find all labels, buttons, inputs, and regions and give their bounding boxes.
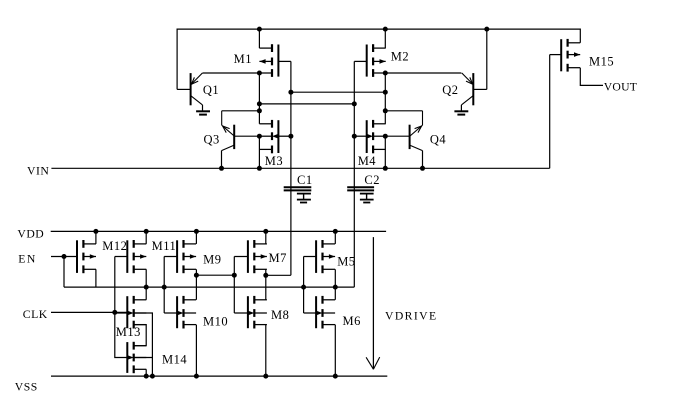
transistor M11 bbox=[115, 240, 147, 273]
junction M2 gate cross wire bbox=[352, 101, 357, 106]
arrow VDRIVE annotation bbox=[366, 237, 380, 369]
wire M5 drain to VDD bbox=[334, 231, 336, 244]
junction VSS / M8 source bbox=[263, 374, 268, 379]
svg-text:Q4: Q4 bbox=[430, 133, 447, 147]
wire EN vertical down to gate bus bbox=[63, 257, 65, 288]
svg-text:M11: M11 bbox=[152, 239, 177, 253]
wire M3 source to VIN rail bbox=[258, 136, 260, 168]
wire M6 source to VSS bbox=[334, 325, 336, 377]
ground below C2 bbox=[360, 194, 374, 203]
wire M2 drain to top rail bbox=[384, 29, 386, 48]
wire M1 drain to top rail bbox=[258, 29, 260, 48]
junction top rail / Q2 base bbox=[484, 27, 489, 32]
transistor M10 bbox=[164, 296, 196, 329]
junction CLK / M11 M13 M14 gates bbox=[112, 310, 117, 315]
wire M5 source down to gate bus bbox=[334, 269, 336, 287]
transistor M12 bbox=[77, 240, 96, 273]
wire cross-coupling M2 gate to M1 drain node bbox=[259, 103, 354, 105]
junction gate bus / M5 M6 gates bbox=[301, 285, 306, 290]
svg-text:M9: M9 bbox=[203, 252, 221, 266]
svg-text:M8: M8 bbox=[271, 308, 289, 322]
svg-text:M3: M3 bbox=[265, 154, 283, 168]
junction M1 source node bbox=[257, 71, 262, 76]
junction VIN / Q4 collector bbox=[420, 166, 425, 171]
junction Q4 base / M4 bulk node bbox=[383, 134, 388, 139]
svg-text:M14: M14 bbox=[162, 353, 187, 367]
capacitor C2 bbox=[347, 187, 374, 190]
junction VIN / M4 source bbox=[383, 166, 388, 171]
svg-text:M5: M5 bbox=[337, 254, 355, 268]
wire M15 source down to VOUT bbox=[580, 68, 603, 86]
wire M9 drain to VDD bbox=[195, 231, 197, 244]
junction VDD / M9 drain bbox=[194, 229, 199, 234]
wire VIN rail bbox=[51, 167, 549, 169]
svg-text:VDD: VDD bbox=[17, 228, 44, 241]
ground below C1 bbox=[297, 194, 311, 203]
transistor M3 bbox=[259, 120, 291, 153]
junction Q3 base / M3 bulk node bbox=[257, 134, 262, 139]
junction M2 drain chain / cross wire bbox=[383, 90, 388, 95]
wire M13 bulk to VSS vertical bbox=[134, 313, 153, 376]
wire M1 source chain down to Q3 emitter node and M3 drain bbox=[258, 73, 260, 124]
wire M11/M13 gate vertical to CLK bbox=[114, 257, 116, 313]
svg-text:M12: M12 bbox=[102, 239, 127, 253]
wire M9 source down to link node bbox=[195, 269, 197, 275]
arrow Q1 emitter (PNP, pointing toward bar) bbox=[191, 81, 198, 84]
junction M1 drain chain / cross wire bbox=[257, 101, 262, 106]
svg-text:VDRIVE: VDRIVE bbox=[385, 309, 438, 322]
transistor M1 bbox=[259, 44, 291, 77]
wire Q2 base vertical to top rail bbox=[486, 29, 488, 89]
wire M11 source down to gate bus bbox=[145, 269, 147, 287]
svg-text:M2: M2 bbox=[391, 50, 409, 64]
arrow Q3 emitter (NPN, pointing away from bar) bbox=[223, 126, 227, 133]
wire link M9 source to M7/M8 gate vertical bbox=[196, 274, 234, 276]
wire M7 drain to VDD bbox=[265, 231, 267, 244]
arrow Q4 emitter (NPN, pointing away from bar) bbox=[415, 126, 422, 129]
svg-text:VSS: VSS bbox=[15, 381, 38, 394]
wire M9 source chain down to M10 drain bbox=[195, 275, 197, 300]
transistor M5 bbox=[304, 240, 336, 273]
svg-text:M13: M13 bbox=[116, 325, 141, 339]
junction VSS / M10 source bbox=[194, 374, 199, 379]
wire cross-coupling M1 gate to M2 drain node bbox=[291, 91, 385, 93]
svg-text:C1: C1 bbox=[297, 173, 313, 187]
wire M5/M6 gate vertical through gate bus bbox=[303, 257, 305, 314]
wire M2 source node to Q2 emitter bbox=[385, 72, 461, 74]
transistor M4 bbox=[354, 120, 385, 153]
capacitor C1 bbox=[284, 187, 312, 190]
wire M3 drain stub corner bbox=[258, 123, 260, 125]
junction VSS / M14 source bbox=[144, 374, 149, 379]
wire M8 source to VSS bbox=[265, 325, 267, 377]
wire M7 source down to C1 link node bbox=[265, 269, 267, 275]
wire M12 drain to VDD bbox=[95, 231, 97, 244]
transistor M14 bbox=[127, 342, 146, 373]
wire CLK input bbox=[51, 311, 127, 313]
wire VDD rail bbox=[51, 230, 386, 232]
wire Q4 base to node bbox=[385, 135, 409, 137]
wire EN input bbox=[51, 256, 77, 258]
svg-text:Q3: Q3 bbox=[204, 133, 220, 147]
wire Q1 base lead bbox=[177, 88, 191, 90]
junction top rail / M1 drain bbox=[257, 27, 262, 32]
transistor M6 bbox=[304, 296, 336, 329]
junction M7 M8 gate vertical / link bbox=[232, 273, 237, 278]
wire Q4 collector to VIN rail bbox=[422, 151, 424, 169]
wire M4 source to VIN rail bbox=[384, 136, 386, 168]
wire M6 drain up to gate bus bbox=[334, 287, 336, 300]
svg-text:M4: M4 bbox=[358, 154, 377, 168]
transistor Q4 bbox=[410, 111, 423, 151]
junction gate bus / M9 M10 gates bbox=[162, 285, 167, 290]
transistor M15 bbox=[550, 39, 581, 72]
junction M9 source link left bbox=[194, 273, 199, 278]
junction M1 gate cross wire bbox=[288, 90, 293, 95]
svg-text:VIN: VIN bbox=[27, 165, 49, 178]
junction EN / M12 gate bbox=[62, 254, 67, 259]
wire CLK vertical down to M14 gate bbox=[115, 312, 128, 357]
transistor M13 bbox=[115, 296, 147, 329]
junction VDD / M12 drain bbox=[93, 229, 98, 234]
wire M13 source down to M14 drain bbox=[134, 325, 147, 346]
wire left vertical from top rail to Q1 base bbox=[176, 29, 178, 90]
junction Q4 emitter node bbox=[383, 108, 388, 113]
wire Q3 base to node bbox=[234, 135, 259, 137]
junction M2 source node bbox=[383, 71, 388, 76]
transistor Q2 bbox=[461, 73, 473, 105]
junction VSS / M6 source bbox=[333, 374, 338, 379]
wire M2/M4 gate vertical down through C2 to gate bus bbox=[353, 61, 355, 287]
junction top rail / M2 drain bbox=[383, 27, 388, 32]
arrow Q2 emitter (PNP, pointing toward bar) bbox=[470, 77, 473, 84]
svg-text:M10: M10 bbox=[203, 314, 228, 328]
junction gate bus / M5 source / M6 drain bbox=[333, 285, 338, 290]
transistor Q1 bbox=[191, 73, 203, 105]
wire M10 source to VSS bbox=[195, 325, 197, 377]
wire M2 source chain down to Q4 emitter node and M4 drain bbox=[384, 73, 386, 124]
junction M4 gate / C2 vertical bbox=[352, 134, 357, 139]
transistor M2 bbox=[354, 44, 385, 77]
svg-text:M6: M6 bbox=[343, 314, 361, 328]
junction VDD / M7 drain bbox=[263, 229, 268, 234]
svg-text:C2: C2 bbox=[364, 173, 380, 187]
wire VSS rail bbox=[51, 375, 387, 377]
wire Q1 collector drop to ground bbox=[202, 105, 204, 111]
wire Q4 emitter horizontal to M2 source chain bbox=[385, 110, 422, 112]
transistor M9 bbox=[164, 240, 196, 273]
junction Q3 emitter node bbox=[257, 108, 262, 113]
svg-text:EN: EN bbox=[18, 252, 37, 265]
wire Q2 collector drop to ground bbox=[460, 105, 462, 111]
junction VDD / M5 drain bbox=[333, 229, 338, 234]
svg-text:M15: M15 bbox=[589, 54, 614, 68]
transistor Q3 bbox=[222, 111, 235, 151]
transistor M8 bbox=[234, 296, 267, 329]
wire top supply rail bbox=[177, 28, 580, 30]
wire Q2 base lead bbox=[473, 88, 487, 90]
wire M12 source down to gate bus bbox=[95, 269, 97, 287]
junction M3 gate / C1 vertical bbox=[288, 134, 293, 139]
wire Q1 emitter to M1 source node bbox=[203, 72, 260, 74]
wire Q3 emitter horizontal to M1 source chain bbox=[222, 110, 260, 112]
junction gate bus / M11 source / M13 drain bbox=[144, 285, 149, 290]
junction VSS / M13 M14 bulk bbox=[150, 374, 155, 379]
wire link C1 vertical to M7 drain node bbox=[266, 274, 291, 276]
wire M11 drain to VDD bbox=[145, 231, 147, 244]
wire Q3 collector to VIN rail bbox=[221, 151, 223, 169]
svg-text:M7: M7 bbox=[269, 251, 287, 265]
wire M14 bulk to VSS vertical bbox=[134, 357, 153, 359]
svg-text:CLK: CLK bbox=[23, 308, 48, 321]
svg-text:VOUT: VOUT bbox=[604, 80, 637, 93]
ground below Q1 bbox=[196, 111, 210, 114]
wire M13 drain up to gate bus bbox=[145, 287, 147, 300]
wire M15 gate vertical from VIN rail bbox=[549, 55, 551, 169]
wire M15 drain to top rail bbox=[579, 29, 581, 43]
svg-text:Q1: Q1 bbox=[203, 83, 219, 97]
wire M7 source chain down to M8 drain bbox=[265, 275, 267, 300]
svg-text:M1: M1 bbox=[234, 52, 252, 66]
junction M7 source / C1 link bbox=[263, 273, 268, 278]
transistor M7 bbox=[234, 240, 267, 273]
wire M1/M3 gate vertical down through C1 to M7 drain bbox=[290, 61, 292, 275]
ground below Q2 bbox=[454, 111, 468, 114]
junction VDD / M11 drain bbox=[144, 229, 149, 234]
wire M14 source to VSS bbox=[145, 369, 147, 376]
wire gate bus bbox=[64, 286, 354, 288]
junction VIN / M3 source bbox=[257, 166, 262, 171]
junction VIN / Q3 collector bbox=[219, 166, 224, 171]
svg-text:Q2: Q2 bbox=[442, 83, 458, 97]
wire M7/M8 gate vertical bbox=[233, 257, 235, 314]
wire M9/M10 gate vertical through gate bus bbox=[163, 257, 165, 314]
